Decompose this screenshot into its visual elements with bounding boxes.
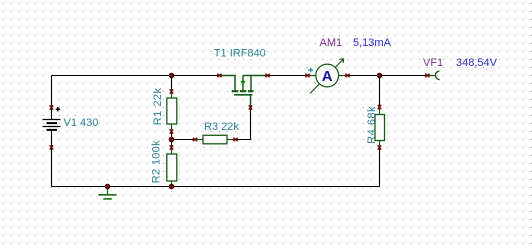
resistor R4 [375,107,385,148]
resistor R2 [167,148,177,187]
voltage probe VF1 [427,71,439,80]
wire R4 bottom [379,148,381,187]
pin tick VF1 [425,74,429,77]
wire battery bottom column [51,130,53,187]
pin tick battery + [50,105,53,109]
wire R1 bottom to node [171,132,173,140]
svg-text:348,54V: 348,54V [456,57,498,69]
wire node to R3 left pin [172,139,196,141]
ground [98,187,116,199]
resistor R1 [167,92,177,132]
pin tick R3 right [233,138,237,141]
pin tick R4 top [378,105,381,109]
resistor R3 [196,135,236,144]
wire node to R2 [171,140,173,148]
ammeter AM1 [308,59,348,94]
battery V1 [43,107,61,130]
pin tick R2 top [170,145,173,149]
wire R1 top [171,76,173,92]
wire top rail left: battery top to MOSFET left pin [52,75,220,77]
svg-text:R2 100k: R2 100k [151,140,163,183]
wire battery top column [51,76,53,120]
transistor T1 (MOSFET) [220,76,268,108]
pin tick AM1 left [305,74,309,77]
wire MOSFET right pin to ammeter left pin [268,75,308,77]
svg-text:R3 22k: R3 22k [204,121,239,133]
pin tick R1 top [170,89,173,93]
svg-text:AM1: AM1 [320,37,343,49]
pin tick battery - [50,145,53,149]
svg-text:5,13mA: 5,13mA [353,37,392,49]
svg-text:T1 IRF840: T1 IRF840 [214,48,266,60]
svg-text:R4 68k: R4 68k [366,106,378,144]
wire bottom rail [52,186,380,188]
wire R4 top [379,76,381,108]
pin tick T1 right [265,74,269,77]
svg-text:R1 22k: R1 22k [152,87,164,125]
junction node ground [105,184,110,189]
junction node top R1 [169,73,174,78]
junction node R4 top [377,73,382,78]
pin tick R3 left [193,138,197,141]
pin tick R1 bottom [170,129,173,133]
wire ammeter right pin to VF1 pin [348,75,428,77]
svg-text:V1 430: V1 430 [64,117,99,129]
svg-text:A: A [322,68,333,85]
svg-text:VF1: VF1 [423,57,443,69]
pin tick T1 left [217,74,221,77]
junction node R2 bottom [169,184,174,189]
pin tick AM1 right [345,74,349,77]
wire R3 right pin to MOSFET gate pin [236,108,251,140]
junction node R1-R2-R3 [169,137,174,142]
pin tick T1 gate [249,105,252,109]
pin tick R4 bottom [378,145,381,149]
